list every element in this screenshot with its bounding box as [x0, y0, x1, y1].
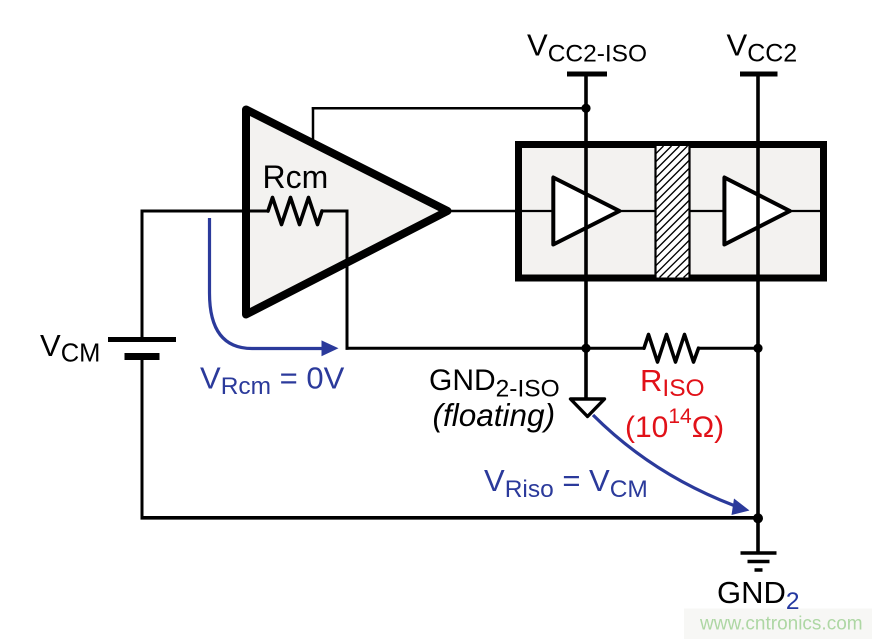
wire: Rcm right stub: [321, 210, 349, 213]
svg-text:(floating): (floating): [433, 397, 556, 433]
op-amp A1 (common-mode buffer): [246, 110, 448, 315]
buffer amp (output side): [724, 178, 790, 245]
wire: op-amp output to isolator box: [449, 210, 520, 213]
wire: RISO right to VCC2 rail: [697, 347, 758, 350]
isolation barrier (hatched): [656, 146, 690, 278]
node: feedback/VCC2-ISO junction: [581, 104, 590, 113]
wire: feedback horizontal to VCC2-ISO node: [312, 107, 586, 110]
wire: bottom horizontal to GND2 node: [141, 516, 759, 520]
battery VCM positive plate: [108, 337, 176, 342]
resistor Rcm: [268, 198, 322, 225]
wire: signal path inside isolator: [522, 210, 820, 212]
isolation amplifier U1 box: [519, 145, 824, 279]
watermark band: [684, 609, 872, 639]
annotation arrow VRiso: [593, 415, 750, 515]
wire: input node to Rcm left: [142, 210, 269, 213]
svg-text:Rcm: Rcm: [263, 159, 329, 195]
node: GND2 junction: [753, 513, 763, 523]
wire: Rcm output down: [346, 210, 349, 350]
buffer amp (isolated side): [553, 178, 619, 245]
wire: VCC2 rail vertical: [756, 74, 760, 552]
node: GND2-ISO junction: [581, 344, 590, 353]
wire: battery bottom vertical: [141, 359, 144, 519]
battery VCM negative plate: [125, 353, 160, 360]
power symbol VCC2: [740, 72, 778, 77]
ground GND2-ISO (floating, open triangle): [571, 399, 605, 417]
power symbol VCC2-ISO: [567, 72, 607, 77]
resistor RISO: [644, 335, 699, 363]
node: RISO/VCC2 junction: [753, 344, 762, 353]
wire: horizontal to GND2-ISO node: [346, 347, 646, 350]
ground GND2: [741, 553, 777, 570]
wire: feedback vertical from op-amp top edge: [312, 107, 315, 145]
annotation arrow VRcm: [210, 218, 339, 356]
wire: VCC2-ISO rail vertical: [584, 74, 588, 399]
svg-text:www.cntronics.com: www.cntronics.com: [699, 614, 863, 635]
wire: battery top vertical: [141, 210, 144, 339]
